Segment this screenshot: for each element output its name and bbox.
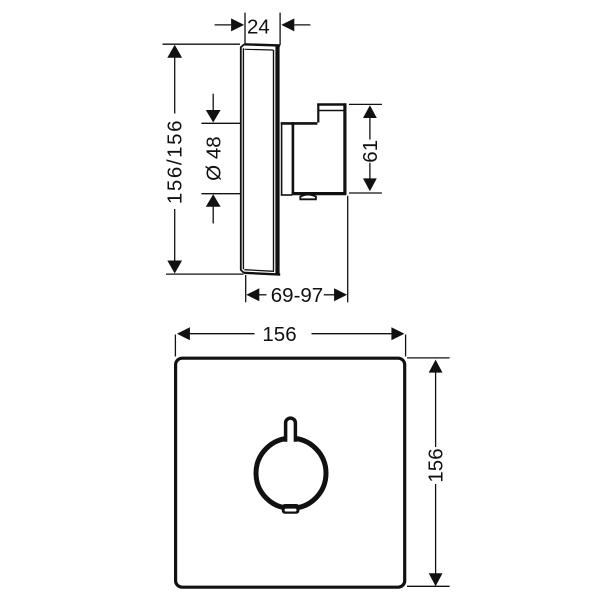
side view: cartridge step left edge [317,104,319,123]
front view: knob [256,438,326,508]
dimension 156 right: bottom extension line [407,585,450,587]
dimension diameter 48: up arrow [206,194,221,207]
dimension 156 right: lower line segment [435,484,437,574]
dimension 156/156: upper line segment [174,57,176,114]
side view: valve body lower-left edge [281,194,292,196]
dimension 61: top extension line [349,103,382,105]
side view: valve body bottom edge [292,192,347,195]
front view: knob stem [286,418,296,442]
side view: clip tab [300,195,316,200]
dimension 156 top: right line segment [312,333,392,335]
dimension 156/156: top extension line [163,43,241,45]
side view: cartridge step inner line [319,110,345,112]
side view: glass plate bottom inner line [244,270,274,272]
svg-text:69-97: 69-97 [271,284,323,307]
dimension 61: bottom extension line [349,192,382,194]
dimension 24: right extension line [279,13,281,45]
dimension diameter 48: bottom line [201,193,240,195]
svg-text:156: 156 [425,448,448,482]
dimension 156 right: top extension line [407,357,450,359]
dimension 156 right: down arrow [429,573,443,586]
dimension diameter 48: bottom leader line [212,206,214,223]
side view: glass plate top inner line [245,48,274,51]
svg-text:61: 61 [359,140,382,163]
side view: glass plate front inner line [242,48,244,269]
dimension 156 right: upper line segment [435,373,437,448]
dimension 156 top: left arrow [177,327,190,340]
dimension 61: upper line segment [369,118,371,140]
front view: bottom tab [282,504,300,514]
dimension 61: lower line segment [369,163,371,180]
side view: glass plate rear inner line [273,50,275,271]
side view: valve body top edge [281,122,318,125]
dimension 156 right: up arrow [429,360,443,373]
side view: glass plate top edge [244,44,280,45]
dimension diameter 48: down arrow [206,110,221,123]
dimension 24: left arrow [231,18,244,31]
dimension 69-97: left extension line [245,275,247,302]
front view: bottom tab slot [285,509,297,512]
side view: valve body right edge [343,103,346,195]
dimension 61: up arrow [363,105,377,118]
dimension 69-97: left arrow [246,288,259,301]
dimension 69-97: right extension line [347,196,349,302]
dimension 69-97: right line segment [324,294,335,296]
dimension 24: right arrow [281,18,294,31]
side view: valve body front edge [292,122,295,194]
dimension diameter 48: top line [201,122,240,124]
dimension diameter 48: top leader line [212,94,214,111]
dimension 69-97: left line segment [259,294,267,296]
svg-text:24: 24 [247,16,270,39]
dimension 24: left line [215,24,231,26]
dimension 156/156: lower line segment [174,209,176,262]
dimension 156 top: right extension line [405,335,407,357]
side view: glass plate bottom edge [244,273,281,275]
dimension 61: down arrow [363,178,377,191]
dimension 156/156: up arrow [167,45,182,58]
dimension 69-97: right arrow [334,288,347,301]
dimension 156 top: left extension line [174,335,176,357]
side view: valve body left edge [281,122,283,195]
dimension 156 top: left line segment [190,333,255,335]
svg-text:156/156: 156/156 [163,119,186,204]
svg-text:Ø 48: Ø 48 [202,136,225,180]
front view: escutcheon plate [176,358,405,587]
dimension 156 top: right arrow [391,327,404,340]
dimension 24: right line [294,24,310,26]
side view: glass plate back edge [275,45,279,274]
side view: glass plate front edge [241,44,244,272]
side view: cartridge step top edge [317,103,346,105]
dimension 156/156: bottom extension line [166,273,244,275]
dimension 156/156: down arrow [167,261,182,274]
dimension 24: left extension line [244,13,246,44]
svg-text:156: 156 [262,323,296,346]
